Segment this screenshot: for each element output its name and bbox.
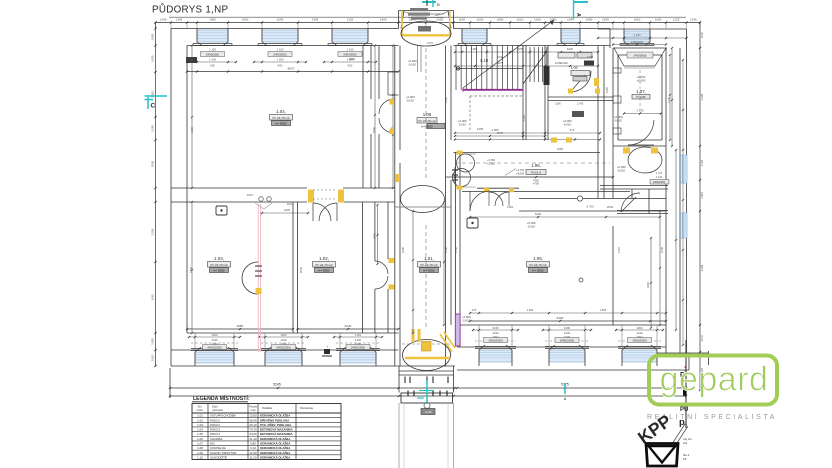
svg-text:1610: 1610	[534, 18, 541, 22]
interior hdim 1.06	[455, 176, 613, 178]
door 1.08 arcs	[375, 261, 388, 274]
bottom dimension line 5175	[457, 387, 686, 389]
svg-text:Poznámka: Poznámka	[300, 406, 313, 410]
svg-text:2195: 2195	[602, 18, 609, 22]
corridor inner lines	[417, 46, 419, 73]
svg-text:1090: 1090	[564, 326, 571, 330]
bottom dimension line full	[170, 395, 686, 397]
svg-text:2400(900): 2400(900)	[206, 53, 219, 57]
double door 1.06-1.05 jambs	[484, 188, 489, 192]
svg-text:1.05: 1.05	[197, 432, 203, 436]
yellow jamb 1.04 door top	[390, 99, 395, 105]
yellow jamb 1.02 door left	[308, 190, 314, 203]
entry tower top wall	[398, 11, 400, 29]
svg-text:-0,010: -0,010	[527, 225, 535, 229]
svg-text:1.06: 1.06	[197, 437, 203, 441]
svg-text:2400(2350): 2400(2350)	[653, 181, 665, 184]
svg-text:1 130: 1 130	[656, 176, 663, 179]
top dimension extension lines	[155, 23, 157, 29]
svg-text:1245: 1245	[690, 18, 697, 22]
window east W13	[681, 155, 688, 183]
outer wall right (east facade)	[686, 29, 688, 353]
svg-text:Účel: Účel	[212, 405, 218, 409]
interior vdim right strip	[675, 150, 677, 330]
svg-text:1610: 1610	[517, 18, 524, 22]
svg-text:4750: 4750	[533, 182, 540, 186]
svg-text:2030: 2030	[436, 18, 443, 22]
svg-text:1.06: 1.06	[423, 112, 432, 117]
svg-text:1000: 1000	[151, 91, 155, 98]
corridor twin circles	[457, 154, 475, 172]
entrance yellow jambs	[412, 329, 415, 342]
svg-text:2400(2350): 2400(2350)	[351, 346, 365, 350]
double door 1.06-1.05 arcs	[489, 192, 503, 206]
svg-text:BETONOVÁ MAZANINA: BETONOVÁ MAZANINA	[260, 431, 293, 436]
svg-text:místn.: místn.	[196, 408, 204, 412]
text D over logo	[683, 388, 687, 396]
svg-text:DŘEVĚNÁ PODLAHA: DŘEVĚNÁ PODLAHA	[260, 417, 290, 422]
outer wall bottom-right block outer face	[457, 369, 689, 371]
svg-text:28,40: 28,40	[249, 418, 257, 422]
svg-text:1400: 1400	[380, 18, 387, 22]
svg-text:C: C	[151, 103, 156, 110]
svg-text:1 780: 1 780	[577, 102, 584, 106]
svg-text:1.03: 1.03	[197, 423, 203, 427]
corridor east wall	[445, 46, 447, 367]
window bottom W12	[622, 350, 657, 362]
svg-text:2195: 2195	[151, 228, 155, 235]
svg-text:1305: 1305	[151, 338, 155, 345]
svg-text:2195: 2195	[312, 18, 319, 22]
svg-text:h= 3050: h= 3050	[422, 124, 433, 128]
svg-text:1245: 1245	[660, 246, 664, 253]
benchmark symbol bottom band	[324, 349, 330, 354]
svg-text:11,20: 11,20	[249, 455, 256, 459]
svg-text:1.07: 1.07	[197, 442, 203, 446]
svg-text:3675: 3675	[497, 131, 504, 135]
svg-text:2195: 2195	[700, 93, 704, 100]
outer wall top-left block inner face	[187, 45, 399, 47]
outer wall top-right block outer face	[598, 28, 687, 30]
window top W1	[197, 30, 228, 42]
svg-text:B: B	[437, 2, 440, 7]
interior wall 1.09 east	[544, 46, 546, 141]
stairs break line	[523, 51, 547, 84]
entrance vault ellipse	[403, 340, 451, 371]
window top W3	[332, 30, 368, 42]
svg-text:-0,45: -0,45	[425, 410, 432, 414]
window bottom W11	[549, 350, 585, 362]
door 1.09 leaf	[572, 74, 586, 90]
svg-text:2400(900): 2400(900)	[343, 53, 356, 57]
entry neck dim line	[170, 392, 200, 394]
svg-text:2400(2350): 2400(2350)	[488, 339, 502, 343]
interior vdim 1.04 east	[374, 46, 376, 189]
svg-text:KERAMICKÁ DLAŽBA: KERAMICKÁ DLAŽBA	[260, 436, 291, 441]
svg-text:2400(2350): 2400(2350)	[632, 339, 646, 343]
stairs walking line diagonal	[463, 20, 554, 88]
svg-text:1.09: 1.09	[571, 66, 578, 70]
svg-text:3680: 3680	[237, 324, 244, 328]
svg-text:1.10: 1.10	[197, 455, 203, 459]
window bottom W7	[195, 352, 234, 363]
section marker C left	[145, 95, 168, 97]
svg-text:1 500: 1 500	[209, 58, 216, 62]
svg-text:1 170: 1 170	[656, 172, 663, 175]
svg-text:1 150: 1 150	[634, 33, 641, 37]
svg-text:A: A	[564, 396, 567, 401]
svg-text:KERAMICKÁ DLAŽBA: KERAMICKÁ DLAŽBA	[260, 445, 291, 450]
svg-text:1245: 1245	[667, 96, 671, 103]
dim extension over logo	[685, 340, 687, 428]
svg-text:900: 900	[348, 64, 353, 68]
svg-text:1125: 1125	[700, 159, 704, 166]
service circles	[259, 197, 264, 202]
bottom wall dimension strings	[189, 336, 240, 338]
svg-text:6,10: 6,10	[250, 446, 256, 450]
vdim right block 4460	[650, 238, 652, 328]
bottom dimension line 5245	[170, 387, 455, 389]
wall 1.02 east	[362, 202, 364, 333]
svg-text:1 150: 1 150	[209, 48, 216, 52]
svg-text:1.07,: 1.07,	[636, 89, 646, 94]
outer wall top stair block inner face	[454, 45, 611, 47]
room 1.05 bottom interior dim	[470, 320, 666, 322]
svg-text:h= 3050: h= 3050	[276, 121, 287, 125]
svg-text:1125: 1125	[507, 205, 513, 209]
stairs landing dashed	[470, 95, 523, 97]
door 1.09 arc	[570, 71, 591, 92]
window top W6 (1.07)	[624, 31, 650, 42]
svg-text:6400: 6400	[557, 316, 564, 320]
interior vdim 1.01 west	[412, 211, 414, 333]
svg-text:5245: 5245	[273, 383, 281, 387]
svg-text:9,80: 9,80	[250, 442, 256, 446]
yellow pair 1.09	[568, 89, 573, 94]
dim 2425 to door	[262, 212, 308, 214]
svg-text:h= 3050: h= 3050	[319, 268, 330, 272]
room 1.05 bottom jamb dim	[470, 312, 666, 314]
window top W4	[462, 30, 487, 42]
section marker A bottom	[564, 383, 566, 394]
svg-text:2195: 2195	[700, 264, 704, 271]
svg-text:1610: 1610	[247, 193, 254, 197]
outer wall bottom-left block bay line	[171, 349, 399, 351]
entry porch box	[401, 393, 453, 403]
svg-text:1790: 1790	[444, 246, 448, 253]
dark wall pocket	[544, 66, 550, 85]
door 1.05 entry arc	[470, 191, 490, 211]
outer wall bottom-left block outer face	[171, 365, 455, 367]
outer wall top stair block outer face	[454, 28, 611, 30]
svg-text:3575: 3575	[373, 233, 377, 239]
svg-text:±0,000: ±0,000	[637, 79, 646, 83]
corridor niche west	[388, 71, 399, 73]
svg-text:1.01: 1.01	[197, 414, 203, 418]
interior vdim right block	[671, 48, 673, 146]
red dashes on extension	[684, 366, 686, 373]
wall 1.05 west new	[455, 153, 457, 334]
svg-text:-0,010: -0,010	[563, 123, 571, 127]
svg-text:1 150: 1 150	[277, 48, 284, 52]
svg-text:21,40: 21,40	[249, 437, 257, 441]
svg-text:+3,700: +3,700	[516, 168, 525, 172]
svg-text:1190: 1190	[459, 18, 466, 22]
svg-text:1000: 1000	[151, 33, 155, 40]
svg-text:-0,010: -0,010	[458, 123, 466, 127]
right strip tick rows	[669, 55, 671, 140]
svg-text:POKOJ: POKOJ	[210, 432, 220, 436]
svg-text:26,10: 26,10	[249, 423, 257, 427]
svg-text:1400: 1400	[280, 333, 287, 337]
svg-text:↑: ↑	[326, 344, 328, 349]
left dimension chain	[155, 23, 157, 367]
svg-text:KERAMICKÁ DLAŽBA: KERAMICKÁ DLAŽBA	[260, 441, 291, 446]
svg-text:POKOJ: POKOJ	[210, 428, 220, 432]
right mid ellipse	[628, 147, 662, 173]
interior vdim 1.05 row	[470, 216, 660, 218]
svg-text:1000: 1000	[477, 18, 484, 22]
svg-text:1.02: 1.02	[197, 418, 203, 422]
svg-text:1090: 1090	[401, 246, 405, 253]
svg-text:1610: 1610	[634, 18, 641, 22]
svg-text:1.10: 1.10	[480, 58, 489, 63]
svg-text:6400: 6400	[535, 212, 542, 216]
svg-text:+3,760: +3,760	[487, 158, 496, 162]
svg-text:1305: 1305	[700, 192, 704, 199]
svg-text:SCHOD. PROSTOR: SCHOD. PROSTOR	[210, 451, 236, 455]
room label 1.09 cluster	[558, 53, 575, 59]
svg-text:PŮDORYS 1,NP: PŮDORYS 1,NP	[152, 4, 229, 16]
stairs cut purple line	[463, 89, 523, 91]
svg-text:1125: 1125	[347, 18, 354, 22]
interior vdim 1.04 east2	[392, 46, 394, 189]
stairs side flight treads	[529, 47, 531, 82]
svg-text:1000: 1000	[151, 160, 155, 167]
section marker A top	[574, 1, 588, 3]
stairs 1.10 upper flight treads	[455, 46, 457, 91]
svg-text:1340: 1340	[444, 96, 448, 103]
svg-text:1245: 1245	[151, 125, 155, 132]
svg-text:8070: 8070	[288, 67, 295, 71]
svg-text:1.05,: 1.05,	[533, 256, 543, 261]
svg-text:1 500: 1 500	[277, 58, 284, 62]
interior wall 1.03|1.02	[292, 202, 294, 333]
porch circle	[424, 403, 430, 409]
yellow pair corridor 1.06 south	[551, 138, 557, 143]
interior vdim 1.03 west	[191, 202, 193, 333]
svg-text:2425: 2425	[284, 208, 291, 212]
svg-text:1190: 1190	[211, 333, 217, 337]
entry neck lower walls	[398, 403, 400, 468]
small room right block	[648, 189, 650, 214]
left extension line bottom	[169, 368, 171, 398]
outer wall left (west facade)	[170, 29, 172, 367]
corridor 1.06 dim row	[455, 132, 600, 134]
outer wall bottom-right block inner face	[455, 324, 666, 326]
svg-text:1 800: 1 800	[600, 308, 607, 312]
svg-text:1 150: 1 150	[347, 48, 354, 52]
room 1.07 wall notches	[613, 68, 621, 73]
svg-text:(m2): (m2)	[251, 409, 256, 412]
svg-text:1.02,: 1.02,	[319, 256, 329, 261]
svg-text:12,30: 12,30	[249, 451, 257, 455]
svg-text:1.04: 1.04	[197, 428, 203, 432]
porch cyan pipe	[426, 380, 428, 404]
door double 1.02-1.04 right leaf	[319, 203, 337, 221]
interior vdim 1.04 west	[191, 46, 193, 189]
svg-text:KOUPELNA: KOUPELNA	[210, 446, 226, 450]
svg-text:2400(900): 2400(900)	[631, 40, 643, 44]
entry tower top bay	[401, 11, 404, 29]
right block top dim row	[598, 37, 687, 39]
svg-text:900: 900	[210, 64, 215, 68]
svg-text:1790: 1790	[454, 246, 458, 253]
svg-text:2400(2350): 2400(2350)	[560, 339, 574, 343]
window bottom W8	[265, 352, 302, 363]
svg-text:místnosti: místnosti	[212, 408, 223, 412]
svg-text:1305: 1305	[605, 86, 609, 93]
window top W2	[262, 30, 298, 42]
wall 1.08 narrow east	[387, 202, 389, 259]
svg-text:LEGENDA MÍSTNOSTÍ:: LEGENDA MÍSTNOSTÍ:	[193, 394, 250, 402]
right dimension chain	[699, 23, 701, 391]
yellow marks twin circles	[457, 151, 463, 155]
interior wall 1.06 south	[446, 176, 614, 178]
svg-text:P=21,4: P=21,4	[531, 171, 541, 175]
stair block top dim row	[455, 51, 598, 53]
fixture box 1.03	[216, 206, 227, 215]
room 1.04 top interior dim	[187, 71, 399, 73]
room 1.03 bottom interior dim	[187, 328, 293, 330]
entry tower dim boxes	[410, 8, 428, 11]
svg-text:KERAMICKÁ DLAŽBA: KERAMICKÁ DLAŽBA	[260, 413, 291, 418]
svg-text:CHODBA: CHODBA	[210, 437, 222, 441]
svg-text:1605: 1605	[151, 55, 155, 62]
svg-text:h= 3050: h= 3050	[214, 268, 225, 272]
svg-text:2030: 2030	[607, 205, 614, 209]
entrance diagonal marks	[440, 334, 452, 352]
svg-text:1190: 1190	[555, 102, 561, 106]
door small room arc	[621, 193, 640, 212]
violet door panel	[455, 314, 460, 346]
corridor 1.06 dim row2	[455, 139, 600, 141]
svg-text:Zur: Zur	[683, 441, 688, 445]
svg-text:2400(900): 2400(900)	[634, 54, 647, 58]
svg-text:SCHODIŠTĚ: SCHODIŠTĚ	[210, 454, 227, 459]
svg-text:1090: 1090	[497, 18, 504, 22]
svg-text:1790: 1790	[587, 55, 594, 59]
porch label box	[421, 409, 435, 415]
porch tick marks	[407, 391, 409, 397]
room 1.07 window funnel	[614, 48, 624, 66]
svg-text:470: 470	[472, 308, 477, 312]
svg-text:h= 3050: h= 3050	[533, 268, 544, 272]
room 1.07 door arc	[628, 120, 654, 145]
svg-text:P= 24,70 m2: P= 24,70 m2	[210, 263, 227, 267]
svg-text:1090: 1090	[557, 147, 564, 151]
interior hdim corridor	[455, 135, 545, 137]
corridor 1.06 dashed lines	[455, 162, 610, 164]
svg-text:2195: 2195	[492, 326, 499, 330]
svg-text:44,60: 44,60	[249, 432, 257, 436]
yellow jamb 1.04 door bottom	[390, 129, 395, 135]
right extension line bottom	[685, 372, 687, 398]
svg-text:1610: 1610	[287, 202, 294, 206]
svg-text:1960: 1960	[372, 126, 376, 133]
interior wall right rooms divider	[600, 185, 668, 187]
door on pink line	[242, 262, 258, 294]
svg-text:Podlaha: Podlaha	[262, 406, 272, 410]
svg-text:1000: 1000	[636, 326, 643, 330]
interior vdim 1.05 east	[659, 211, 661, 325]
svg-text:+0,000: +0,000	[560, 62, 568, 65]
outer wall top-left block outer face	[171, 28, 399, 30]
svg-text:1170: 1170	[700, 335, 704, 342]
entry tower corner arcs	[403, 11, 417, 16]
entry tower yellow jambs	[401, 11, 403, 36]
svg-text:1145: 1145	[151, 294, 155, 301]
svg-text:1340: 1340	[497, 55, 504, 59]
title rule line	[169, 16, 686, 18]
svg-text:BETONOVÁ MAZANINA: BETONOVÁ MAZANINA	[260, 427, 293, 432]
svg-text:gepard: gepard	[660, 361, 769, 399]
window top W5	[561, 30, 580, 42]
svg-text:h= 3050: h= 3050	[424, 268, 435, 272]
neck tick row	[404, 377, 406, 384]
svg-text:5240: 5240	[345, 324, 352, 328]
svg-text:PVC, DŘEV. PODLAHA: PVC, DŘEV. PODLAHA	[260, 422, 292, 427]
stamp emblem	[646, 444, 678, 467]
entry tower yellow lintel	[402, 34, 451, 36]
svg-text:1.01,: 1.01,	[424, 256, 434, 261]
svg-text:1.08: 1.08	[197, 446, 203, 450]
svg-text:1000: 1000	[655, 18, 662, 22]
yellow jambs 1.08 door	[389, 258, 395, 263]
svg-text:-0,010: -0,010	[462, 319, 470, 323]
svg-text:1170: 1170	[617, 247, 621, 253]
svg-text:KERAMICKÁ DLAŽBA: KERAMICKÁ DLAŽBA	[260, 454, 291, 459]
svg-text:900: 900	[278, 64, 283, 68]
room 1.07 interior dim	[624, 113, 661, 115]
yellow pair 1.07 bottom	[623, 148, 630, 154]
svg-text:1.03,: 1.03,	[214, 256, 224, 261]
door lintel dashes	[313, 189, 337, 191]
top dimension chain	[156, 22, 701, 24]
svg-text:1605: 1605	[209, 18, 216, 22]
svg-text:+2,010: +2,010	[487, 162, 496, 166]
svg-text:1340: 1340	[160, 18, 167, 22]
svg-text:POKOJ: POKOJ	[210, 423, 220, 427]
wall 1.09 south	[548, 96, 613, 98]
stamp leader lines	[672, 424, 685, 444]
svg-text:P=9,80: P=9,80	[637, 95, 646, 99]
svg-text:P= 24,70 m2: P= 24,70 m2	[420, 263, 437, 267]
stair block top dim row2	[455, 65, 598, 67]
hall 1.01 vault ellipse	[401, 186, 445, 213]
entry neck walls	[398, 366, 400, 393]
pink service line	[257, 204, 259, 352]
svg-text:1125: 1125	[673, 18, 680, 22]
svg-text:VSTUPNÍ CHODBA: VSTUPNÍ CHODBA	[210, 414, 236, 418]
svg-text:1900: 1900	[567, 47, 574, 51]
svg-text:1090: 1090	[277, 18, 284, 22]
interior wall stairs east	[522, 46, 524, 141]
svg-text:1125: 1125	[355, 333, 361, 337]
interior vdim 1.01	[443, 202, 445, 325]
svg-text:P= 24,70 m2: P= 24,70 m2	[272, 116, 289, 120]
svg-text:1145: 1145	[700, 32, 704, 39]
